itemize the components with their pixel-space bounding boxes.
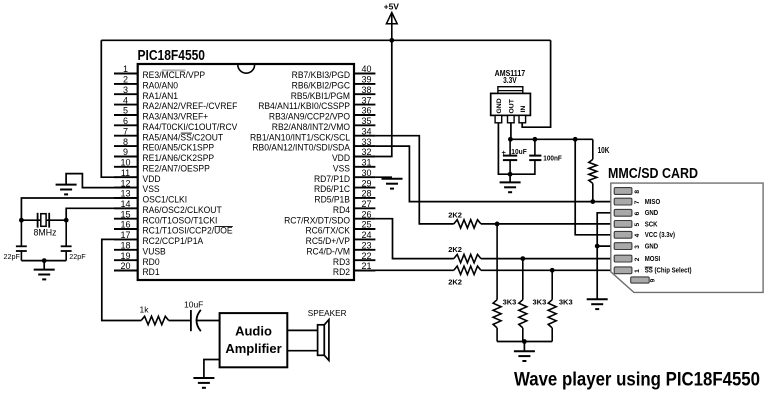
svg-text:36: 36 (361, 106, 371, 116)
junction VCC branch (573, 137, 578, 142)
capacitor C1 22pF left (4, 220, 27, 261)
wire 3K3 common bottom (497, 341, 552, 343)
svg-text:IN: IN (520, 106, 527, 113)
pin 12 VSS (114, 178, 160, 194)
svg-text:10: 10 (120, 158, 130, 168)
resistor R1 2K2 SCK (448, 210, 481, 228)
pin 34 RB1/AN10/INT1/SCK/SCL (250, 126, 375, 142)
svg-text:34: 34 (361, 126, 371, 136)
pin 37 RB4/AN11/KBI0/CSSPP (258, 95, 375, 111)
ground at crystal (34, 270, 55, 280)
wire +5V top rail (101, 39, 550, 41)
capacitor C2 22pF right (61, 220, 87, 261)
svg-text:100nF: 100nF (543, 154, 562, 163)
svg-text:RB0/AN12/INT0/SDI/SDA: RB0/AN12/INT0/SDI/SDA (252, 142, 350, 153)
svg-text:8: 8 (123, 137, 128, 147)
svg-text:RC0/T1OSO/T1CKI: RC0/T1OSO/T1CKI (143, 215, 218, 226)
svg-text:10K: 10K (598, 146, 610, 155)
junction SCK 3K3 (495, 222, 500, 227)
svg-text:19: 19 (120, 251, 130, 261)
card pin 3 (614, 243, 658, 251)
svg-text:2: 2 (123, 75, 128, 85)
crystal X1 8MHz (34, 213, 57, 238)
card pin 1 (614, 267, 691, 275)
svg-text:RB5/KBI1/PGM: RB5/KBI1/PGM (291, 90, 350, 101)
svg-text:32: 32 (361, 147, 371, 157)
svg-text:3K3: 3K3 (533, 298, 547, 307)
audio amplifier block (220, 313, 288, 367)
svg-text:VUSB: VUSB (143, 246, 166, 257)
svg-text:30: 30 (361, 168, 371, 178)
wire +5V down to pin 32 VDD (375, 40, 391, 156)
wire stem regulator ground (509, 174, 511, 182)
wire crystal caps bottom (21, 260, 66, 262)
pin 16 RC1/T1OSI/CCP2/UOE (114, 220, 233, 236)
svg-text:Audio: Audio (235, 324, 272, 339)
svg-text:RA6/OSC2/CLKOUT: RA6/OSC2/CLKOUT (143, 204, 223, 215)
svg-text:VDD: VDD (332, 153, 350, 164)
svg-text:RD2: RD2 (333, 267, 350, 278)
pin 2 RA0/AN0 (114, 75, 178, 91)
svg-text:29: 29 (361, 178, 371, 188)
svg-text:RE1/AN6/CK2SPP: RE1/AN6/CK2SPP (143, 153, 215, 164)
svg-text:RD7/P1D: RD7/P1D (314, 173, 350, 184)
pin 4 RA2/AN2/VREF-/CVREF (114, 95, 238, 111)
pin 3 RA1/AN1 (114, 85, 178, 101)
wire amplifier to speaker top (287, 329, 317, 331)
resistor R2 2K2 MOSI (448, 245, 481, 263)
junction caps bottom node (508, 172, 513, 177)
pin 1 RE3/MCLR/VPP (114, 64, 205, 80)
svg-text:39: 39 (361, 75, 371, 85)
svg-text:1: 1 (123, 64, 128, 74)
svg-text:22: 22 (361, 251, 371, 261)
ground at regulator (500, 182, 521, 192)
wire 3.3V rail (510, 138, 593, 140)
svg-text:7: 7 (123, 126, 128, 136)
pin 40 RB7/KBI3/PGD (292, 64, 376, 80)
svg-text:20: 20 (120, 261, 130, 271)
pin 17 RC2/CCP1/P1A (114, 230, 203, 246)
svg-text:RA2/AN2/VREF-/CVREF: RA2/AN2/VREF-/CVREF (143, 101, 238, 112)
junction MOSI 3K3 (520, 256, 525, 261)
svg-text:27: 27 (361, 199, 371, 209)
pin 23 RC4/D-/VM (306, 241, 375, 257)
svg-text:18: 18 (120, 241, 130, 251)
svg-text:3K3: 3K3 (503, 298, 517, 307)
pin 30 RD7/P1D (314, 168, 375, 184)
pin 11 VDD (114, 168, 161, 184)
junction 3K3 ground node (522, 339, 527, 344)
svg-text:33: 33 (361, 137, 371, 147)
svg-text:MOSI: MOSI (645, 256, 661, 263)
svg-text:2: 2 (634, 257, 641, 261)
svg-text:5: 5 (634, 223, 641, 227)
junction crystal right node (64, 218, 69, 223)
svg-text:2K2: 2K2 (448, 210, 462, 219)
wire 10uF to amplifier (197, 320, 220, 322)
svg-text:RB4/AN11/KBI0/CSSPP: RB4/AN11/KBI0/CSSPP (258, 101, 350, 112)
svg-text:RD5/P1B: RD5/P1B (314, 194, 350, 205)
svg-text:SPEAKER: SPEAKER (308, 309, 347, 318)
pin 15 RC0/T1OSO/T1CKI (114, 209, 217, 225)
wire rail to regulator IN (522, 40, 550, 127)
pin 20 RD1 (114, 261, 160, 277)
svg-text:22pF: 22pF (69, 252, 86, 261)
svg-text:RB1/AN10/INT1/SCK/SCL: RB1/AN10/INT1/SCK/SCL (250, 132, 350, 143)
svg-text:RC6/TX/CK: RC6/TX/CK (305, 225, 350, 236)
wire MOSI net pin 26 SDO to 2K2 (375, 219, 453, 259)
wire 1k to 10uF (169, 320, 191, 322)
resistor R6 3K3 on SCK (493, 224, 516, 342)
pin 33 RB0/AN12/INT0/SDI/SDA (252, 137, 375, 153)
svg-text:23: 23 (361, 241, 371, 251)
svg-text:+: + (502, 148, 507, 157)
wire pin 14 OSC2 to crystal (66, 208, 138, 220)
wire pin 12 VSS to ground (66, 174, 138, 188)
svg-text:RC2/CCP1/P1A: RC2/CCP1/P1A (143, 236, 204, 247)
svg-text:24: 24 (361, 230, 371, 240)
svg-text:RD4: RD4 (333, 204, 350, 215)
IC U1 PIC18F4550 (138, 47, 355, 280)
junction crystal left node (19, 218, 24, 223)
card pin 7 (614, 198, 660, 206)
svg-text:15: 15 (120, 209, 130, 219)
svg-text:+5V: +5V (384, 2, 400, 12)
svg-text:5: 5 (123, 106, 128, 116)
svg-text:RA1/AN1: RA1/AN1 (143, 90, 179, 101)
svg-text:26: 26 (361, 209, 371, 219)
wire SS to card pin 1 (481, 269, 614, 271)
wire amplifier to ground (204, 360, 220, 378)
wire rail down to pin 11 VDD (101, 40, 137, 177)
pin 5 RA3/AN3/VREF+ (114, 106, 208, 122)
pin 10 RE2/AN7/OESPP (114, 158, 210, 174)
junction +5V rail (389, 38, 394, 43)
pin 31 VSS (333, 158, 375, 174)
node +5V supply symbol (384, 2, 400, 41)
svg-text:RC5/D+/VP: RC5/D+/VP (306, 236, 350, 247)
wire stem to crystal ground (43, 261, 45, 269)
pin 18 VUSB (114, 241, 166, 257)
svg-text:RD1: RD1 (143, 267, 160, 278)
ground at 3K3 resistors (514, 351, 535, 361)
svg-text:RA4/T0CKI/C1OUT/RCV: RA4/T0CKI/C1OUT/RCV (143, 121, 238, 132)
svg-text:RB3/AN9/CCP2/VPO: RB3/AN9/CCP2/VPO (269, 111, 350, 122)
wire MISO net pin 33 to card pin 7 (375, 146, 614, 202)
svg-text:3: 3 (634, 245, 641, 249)
pin 8 RE0/AN5/CK1SPP (114, 137, 214, 153)
card pin 2 (614, 255, 660, 263)
svg-text:25: 25 (361, 220, 371, 230)
svg-text:MMC/SD CARD: MMC/SD CARD (608, 166, 698, 182)
junction caps bottom (42, 258, 47, 263)
wire SCK to card pin 5 (481, 223, 614, 225)
pin 28 RD5/P1B (314, 189, 375, 205)
svg-text:RB2/AN8/INT2/VMO: RB2/AN8/INT2/VMO (272, 121, 350, 132)
card pin 8 (614, 188, 641, 195)
svg-text:RE3/MCLR/VPP: RE3/MCLR/VPP (143, 70, 206, 81)
pin 35 RB2/AN8/INT2/VMO (272, 116, 376, 132)
svg-text:16: 16 (120, 220, 130, 230)
svg-text:4: 4 (634, 233, 641, 237)
wire amplifier to speaker bottom (287, 350, 317, 352)
svg-text:GND: GND (645, 243, 659, 250)
svg-text:38: 38 (361, 85, 371, 95)
svg-text:SS (Chip Select): SS (Chip Select) (645, 267, 692, 274)
svg-text:35: 35 (361, 116, 371, 126)
svg-text:13: 13 (120, 189, 130, 199)
pin 7 RA5/AN4/SS/C2OUT (114, 126, 224, 142)
svg-text:RC7/RX/DT/SDO: RC7/RX/DT/SDO (284, 215, 350, 226)
pin 25 RC6/TX/CK (305, 220, 375, 236)
svg-text:RE2/AN7/OESPP: RE2/AN7/OESPP (143, 163, 210, 174)
svg-text:OSC1/CLKI: OSC1/CLKI (143, 194, 188, 205)
svg-text:22pF: 22pF (4, 252, 21, 261)
wire regulator GND leg down (498, 123, 510, 175)
card pin 6 (614, 209, 658, 217)
pin 13 OSC1/CLKI (114, 189, 187, 205)
wire crystal horizontal (21, 219, 66, 221)
svg-text:3: 3 (123, 85, 128, 95)
wire pin 13 OSC1 to crystal (21, 198, 137, 220)
svg-text:RE0/AN5/CK1SPP: RE0/AN5/CK1SPP (143, 142, 215, 153)
ground at pin 12 (56, 185, 77, 195)
junction card GND (595, 244, 600, 249)
pin 29 RD6/P1C (314, 178, 375, 194)
junction SS 3K3 (550, 268, 555, 273)
svg-text:6: 6 (634, 211, 641, 215)
svg-text:4: 4 (123, 95, 128, 105)
pin 26 RC7/RX/DT/SDO (284, 209, 375, 225)
svg-text:RB7/KBI3/PGD: RB7/KBI3/PGD (292, 70, 351, 81)
ground at card (587, 299, 608, 309)
svg-text:OUT: OUT (509, 98, 516, 113)
svg-text:8: 8 (634, 190, 641, 194)
wire regulator OUT leg down (510, 123, 512, 140)
connector J1 MMC/SD card outline (608, 166, 763, 292)
svg-text:3K3: 3K3 (559, 298, 573, 307)
svg-text:6: 6 (123, 116, 128, 126)
card pin 9 (631, 277, 657, 283)
svg-text:7: 7 (634, 200, 641, 204)
svg-text:VDD: VDD (143, 173, 161, 184)
pin 39 RB6/KBI2/PGC (292, 75, 376, 91)
ground at pin 30 (382, 179, 403, 189)
svg-text:RD3: RD3 (333, 256, 350, 267)
junction OUT node (508, 137, 513, 142)
speaker LS1 (308, 309, 347, 360)
svg-text:8MHz: 8MHz (34, 228, 57, 238)
svg-text:MISO: MISO (645, 199, 660, 206)
wire stem 3K3 ground (523, 342, 525, 351)
wire pin 17 RC2/CCP1 to 1k resistor (102, 239, 141, 320)
svg-text:28: 28 (361, 189, 371, 199)
resistor R5 10K pull-up (589, 139, 610, 201)
svg-text:RA3/AN3/VREF+: RA3/AN3/VREF+ (143, 111, 209, 122)
svg-text:VCC (3.3v): VCC (3.3v) (645, 232, 675, 239)
svg-text:RD0: RD0 (143, 256, 160, 267)
pin 24 RC5/D+/VP (306, 230, 376, 246)
wire VCC 3.3V to card pin 4 (575, 139, 614, 235)
svg-text:3.3V: 3.3V (503, 76, 517, 85)
svg-text:Amplifier: Amplifier (225, 341, 281, 356)
svg-text:10uF: 10uF (184, 300, 203, 310)
pin 22 RD3 (333, 251, 375, 267)
svg-text:GND: GND (645, 210, 659, 217)
pin 9 RE1/AN6/CK2SPP (114, 147, 214, 163)
svg-text:VSS: VSS (333, 163, 350, 174)
pin 14 RA6/OSC2/CLKOUT (114, 199, 222, 215)
capacitor C5 10uF coupling (184, 300, 203, 332)
svg-text:Wave player using PIC18F4550: Wave player using PIC18F4550 (514, 370, 760, 391)
resistor R3 2K2 SS (448, 266, 481, 287)
pin 32 VDD (332, 147, 375, 163)
svg-text:1: 1 (634, 269, 641, 273)
svg-text:PIC18F4550: PIC18F4550 (138, 47, 206, 64)
pin 19 RD0 (114, 251, 160, 267)
pin 6 RA4/T0CKI/C1OUT/RCV (114, 116, 237, 132)
card pin 4 (614, 231, 675, 239)
wire SCK net pin 34 to 2K2 (375, 136, 453, 224)
capacitor C3 10uF (502, 139, 528, 174)
svg-text:31: 31 (361, 158, 371, 168)
wire card GND pin 3 (597, 245, 614, 247)
svg-text:10uF: 10uF (511, 147, 527, 156)
card pin 5 (614, 221, 658, 229)
junction 100nF top (533, 137, 538, 142)
wire SS net pin 21 RD2 to 2K2 (354, 269, 454, 271)
resistor R7 3K3 on MOSI (519, 259, 546, 342)
regulator U2 AMS1117 3.3V (491, 69, 531, 123)
svg-text:RA0/AN0: RA0/AN0 (143, 80, 179, 91)
pin 21 RD2 (333, 261, 375, 277)
resistor R4 1k (140, 305, 169, 325)
ground at amplifier (193, 378, 214, 388)
svg-text:2K2: 2K2 (448, 278, 462, 287)
svg-text:VSS: VSS (143, 184, 160, 195)
capacitor C4 100nF (510, 139, 562, 174)
wire pin 30 to ground (375, 176, 392, 178)
wire MOSI to card pin 2 (481, 258, 614, 260)
pin 36 RB3/AN9/CCP2/VPO (269, 106, 375, 122)
svg-text:9: 9 (123, 147, 128, 157)
wire card GND pin 6 down (597, 213, 614, 299)
junction 10K on MISO (590, 199, 595, 204)
svg-text:RD6/P1C: RD6/P1C (314, 184, 350, 195)
svg-text:SCK: SCK (645, 221, 658, 228)
svg-text:RC4/D-/VM: RC4/D-/VM (306, 246, 350, 257)
svg-text:RB6/KBI2/PGC: RB6/KBI2/PGC (292, 80, 351, 91)
svg-text:GND: GND (496, 98, 503, 113)
svg-text:9: 9 (650, 278, 657, 282)
pin 38 RB5/KBI1/PGM (291, 85, 376, 101)
resistor R8 3K3 on SS (548, 270, 572, 341)
svg-text:40: 40 (361, 64, 371, 74)
svg-text:2K2: 2K2 (448, 245, 462, 254)
pin 27 RD4 (333, 199, 375, 215)
svg-text:1k: 1k (140, 305, 150, 315)
svg-text:37: 37 (361, 95, 371, 105)
